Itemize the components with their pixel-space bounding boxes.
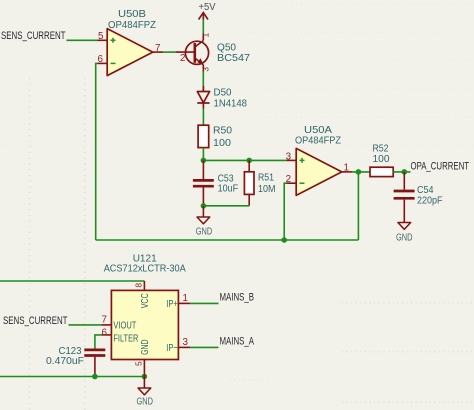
svg-text:MAINS_B: MAINS_B (220, 291, 255, 303)
svg-text:BC547: BC547 (217, 53, 250, 64)
net label SENS_CURRENT (1, 30, 66, 42)
svg-text:R52: R52 (373, 144, 389, 155)
svg-text:220pF: 220pF (417, 195, 443, 206)
svg-text:IP+: IP+ (166, 299, 178, 310)
wire VCC rail to U121 pin 8 (0, 280, 144, 282)
wire SENS_CURRENT to U50B pin 5 (67, 39, 98, 41)
wire SENS_CURRENT to U121 pin 7 (69, 324, 102, 326)
wire R51 bottom to C53 bottom (203, 205, 249, 207)
wire R50 to node (202, 148, 204, 161)
net label SENS_CURRENT bottom (3, 315, 68, 327)
svg-text:D50: D50 (214, 87, 232, 98)
svg-text:0.470uF: 0.470uF (46, 356, 84, 367)
svg-text:OP484FPZ: OP484FPZ (295, 135, 342, 146)
svg-text:1: 1 (201, 33, 211, 38)
wire R52 to OPA_CURRENT (393, 171, 410, 173)
wire U50B pin6 feedback vertical (96, 63, 98, 240)
junction node C53 top (201, 158, 207, 164)
svg-text:GND: GND (140, 339, 151, 355)
wire node row to U50A pin 3 (203, 159, 286, 161)
svg-text:R50: R50 (213, 125, 232, 136)
svg-text:OPA_CURRENT: OPA_CURRENT (411, 160, 470, 172)
net label MAINS_A (220, 335, 255, 347)
svg-text:VIOUT: VIOUT (113, 321, 136, 332)
wire U121 pin3 to MAINS_A (190, 346, 219, 348)
svg-text:3: 3 (286, 151, 292, 162)
junction node C53 bottom (201, 203, 207, 209)
junction U121 pin 5 (142, 374, 148, 380)
ground below C54 (396, 223, 413, 244)
wire D50 to R50 (202, 109, 204, 126)
junction feedback pin2 (281, 237, 287, 243)
svg-text:Q50: Q50 (217, 43, 236, 54)
svg-text:7: 7 (102, 315, 107, 326)
svg-text:1: 1 (344, 163, 349, 174)
op-amp U50A (286, 125, 352, 196)
junction C54 top (402, 169, 408, 175)
wire Q50 emitter to D50 (202, 72, 204, 92)
net label OPA_CURRENT (411, 160, 470, 172)
svg-text:1: 1 (183, 293, 188, 304)
svg-text:5: 5 (98, 31, 104, 42)
svg-text:7: 7 (155, 43, 160, 54)
svg-text:10uF: 10uF (218, 183, 239, 194)
wire ground rail bottom (0, 376, 144, 378)
ground below U121 (137, 388, 154, 407)
wire U50A output down to feedback (357, 172, 359, 240)
pin 8 VCC (143, 281, 145, 290)
svg-text:2: 2 (180, 53, 185, 64)
svg-text:2: 2 (286, 174, 291, 185)
svg-text:10M: 10M (258, 184, 276, 195)
wire U121 pin1 to MAINS_B (190, 302, 219, 304)
svg-text:GND: GND (196, 227, 213, 238)
svg-text:3: 3 (201, 67, 211, 72)
power +5V (199, 2, 216, 34)
svg-text:3: 3 (183, 337, 189, 348)
resistor R51 (244, 160, 275, 205)
svg-text:OP484FPZ: OP484FPZ (108, 20, 157, 31)
svg-text:100: 100 (373, 154, 390, 165)
svg-text:IP−: IP− (166, 343, 178, 354)
diode D50 (197, 86, 247, 109)
pin 1 IP+ (178, 302, 190, 304)
resistor R50 (198, 125, 232, 149)
capacitor C53 (193, 160, 238, 205)
svg-text:R51: R51 (258, 173, 274, 184)
svg-text:+5V: +5V (199, 2, 216, 13)
svg-text:8: 8 (134, 283, 144, 288)
ground below C53 (196, 206, 213, 238)
pin 3 IP- (178, 346, 190, 348)
capacitor C54 (394, 172, 443, 223)
svg-text:ACS712xLCTR-30A: ACS712xLCTR-30A (104, 264, 186, 275)
wire U50A output to R52 (352, 171, 370, 173)
svg-text:100: 100 (213, 138, 231, 149)
wire U50B pin 7 to Q50 base (163, 51, 176, 53)
pin 6 FILTER (101, 334, 111, 336)
junction node R51 top (246, 158, 252, 164)
junction C123 bottom (92, 374, 98, 380)
pin 7 VIOUT (101, 324, 111, 326)
svg-text:MAINS_A: MAINS_A (220, 335, 255, 347)
net label MAINS_B (220, 291, 255, 303)
transistor Q50 (176, 33, 250, 72)
svg-text:GND: GND (396, 232, 413, 243)
pin 5 GND (143, 360, 145, 371)
wire pin5 to ground (143, 370, 145, 388)
svg-text:1N4148: 1N4148 (214, 98, 248, 109)
wire U121 pin 6 to C123 (95, 335, 101, 349)
svg-text:U50B: U50B (118, 9, 146, 20)
svg-text:SENS_CURRENT: SENS_CURRENT (1, 30, 66, 42)
svg-text:FILTER: FILTER (113, 333, 138, 344)
junction U50A output (356, 169, 362, 175)
svg-text:U50A: U50A (304, 125, 332, 136)
IC U121 ACS712 (101, 254, 190, 371)
svg-text:5: 5 (134, 361, 144, 366)
svg-text:GND: GND (137, 396, 154, 407)
wire feedback bottom horizontal (96, 239, 359, 241)
svg-text:VCC: VCC (140, 293, 151, 308)
wire U50A pin2 stub (284, 183, 286, 240)
capacitor C123 (46, 346, 105, 376)
svg-text:6: 6 (98, 54, 104, 65)
svg-text:6: 6 (102, 327, 108, 338)
svg-text:SENS_CURRENT: SENS_CURRENT (3, 315, 68, 327)
op-amp U50B (98, 9, 164, 76)
resistor R52 (370, 144, 393, 177)
